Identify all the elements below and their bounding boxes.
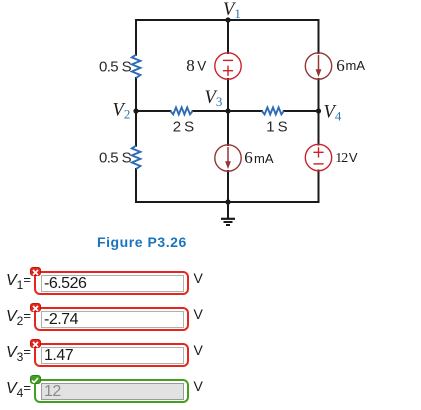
svg-text:V1: V1 (223, 0, 241, 21)
svg-text:1 S: 1 S (266, 118, 287, 135)
svg-text:mA: mA (254, 151, 274, 166)
svg-text:mA: mA (346, 58, 366, 73)
svg-text:0.5 S: 0.5 S (99, 58, 132, 75)
svg-text:V: V (197, 58, 206, 73)
svg-text:V4: V4 (324, 103, 342, 124)
svg-text:V2: V2 (113, 101, 131, 122)
svg-text:12: 12 (335, 151, 348, 166)
svg-text:0.5 S: 0.5 S (99, 149, 132, 166)
svg-text:V3: V3 (205, 88, 223, 109)
svg-text:6: 6 (244, 148, 253, 167)
svg-text:8: 8 (186, 56, 195, 75)
svg-text:6: 6 (336, 56, 345, 75)
svg-text:V: V (349, 150, 358, 165)
svg-text:2 S: 2 S (173, 118, 194, 135)
